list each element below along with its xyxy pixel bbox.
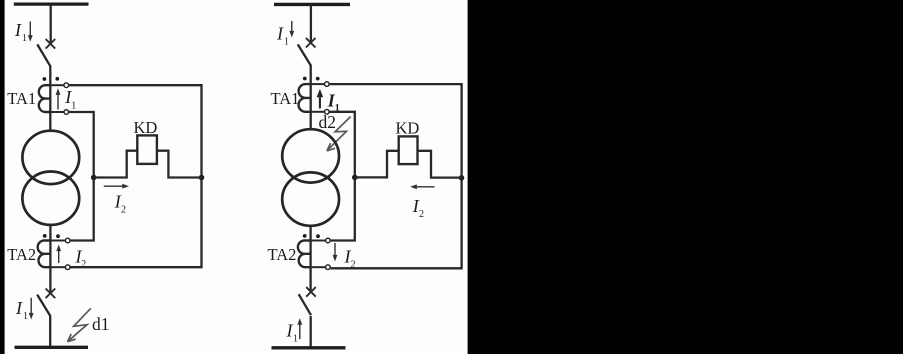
svg-text:d1: d1: [92, 314, 110, 334]
svg-text:2: 2: [121, 205, 126, 216]
label I1 top-left: [14, 20, 27, 44]
switch blade top-left: [37, 44, 50, 66]
arrow I1 secondary bold (up) right TA1: [317, 89, 324, 109]
bus top-left: [14, 2, 89, 5]
wire: relay branch right segment (right circuit): [418, 151, 462, 178]
TA1 terminal circle top (right): [325, 82, 330, 87]
current arrow I1 bottom-left (down): [29, 298, 34, 320]
current arrow I1 top-right (down): [289, 21, 294, 38]
wire: TA1 top terminal to right vertical (left circuit): [69, 85, 202, 267]
TA2 terminal stub wires (left): [50, 241, 65, 268]
svg-text:1: 1: [22, 33, 27, 44]
TA1 terminal circle top: [64, 83, 69, 88]
svg-text:1: 1: [23, 311, 28, 322]
wire: transformer to TA2 (right): [309, 226, 311, 291]
wire: blade to bus bottom-left: [49, 315, 51, 348]
breaker cross bottom-left: [46, 289, 56, 299]
wire: TA1 top terminal to right vertical (right circuit): [330, 84, 462, 268]
svg-text:KD: KD: [134, 118, 158, 137]
polarity dot TA2 primary (right): [303, 234, 307, 238]
TA1 terminal stub wires: [51, 85, 64, 112]
svg-text:1: 1: [293, 333, 298, 344]
wire: relay branch left segment (right circuit): [355, 151, 399, 178]
breaker cross top-left: [46, 39, 56, 49]
TA2 terminal circle top (left): [65, 238, 70, 243]
junction node left (inner): [91, 175, 97, 181]
wire: TA1 bottom terminal down to TA2 top terminal (left inner): [69, 112, 94, 241]
label I1 bold at TA1 (right): [327, 90, 340, 114]
transformer T1 (right) upper winding: [282, 129, 339, 182]
relay KD (left): [137, 135, 157, 164]
svg-text:2: 2: [419, 209, 424, 220]
relay KD (right): [399, 136, 418, 164]
bus top-right: [274, 3, 350, 6]
bus bottom-left: [15, 346, 89, 349]
breaker cross bottom-right: [306, 287, 316, 297]
label I1 top-right: [276, 24, 289, 48]
CT TA1 (right) coil: [299, 84, 311, 112]
label I2 at TA2 (right): [344, 247, 356, 271]
switch blade bottom-right: [299, 294, 311, 315]
wire: relay branch right segment: [157, 151, 202, 178]
polarity dot TA1 primary (right): [303, 77, 307, 81]
svg-text:1: 1: [71, 100, 76, 111]
polarity dot TA2 secondary (left): [56, 234, 60, 238]
svg-text:TA2: TA2: [268, 245, 297, 264]
svg-text:TA1: TA1: [7, 89, 36, 108]
TA1 terminal circle bottom: [64, 110, 69, 115]
wire: blade to bus bottom-right: [310, 316, 312, 348]
label I2 relay (right circuit): [412, 196, 424, 220]
black region right side: [468, 0, 903, 354]
polarity dot TA1 secondary: [55, 77, 59, 81]
fault d2 lightning arrow: [327, 117, 351, 151]
label I2 at TA2 (left): [75, 246, 87, 270]
TA1 terminal circle bottom (right): [325, 110, 330, 115]
polarity dot TA2 primary (left): [43, 234, 47, 238]
svg-text:KD: KD: [396, 119, 420, 138]
TA2 terminal stub wires (right): [311, 241, 326, 268]
label I1 bottom-right: [286, 321, 299, 345]
TA1 terminal stub wires (right): [311, 84, 324, 112]
current arrow I1 top-left (down): [28, 22, 33, 42]
polarity dot TA1 primary: [43, 77, 47, 81]
arrow I2 relay current (left-pointing, right circuit): [410, 184, 434, 189]
svg-text:I: I: [14, 20, 22, 40]
CT TA2 (left) coil: [38, 240, 51, 267]
transformer T1 (right) lower winding: [282, 172, 339, 225]
TA2 terminal circle bottom (right): [326, 265, 331, 270]
label I1 bottom-left: [15, 298, 28, 322]
CT TA1 (left) coil: [39, 85, 51, 112]
svg-text:I: I: [276, 24, 284, 44]
current arrow I1 bottom-right (up): [297, 318, 302, 339]
arrow I2 relay current (right-pointing, left circuit): [104, 184, 129, 189]
polarity dot TA2 secondary (right): [316, 234, 320, 238]
svg-text:TA2: TA2: [7, 245, 36, 264]
arrow I1 secondary (up) left TA1: [56, 88, 61, 109]
wire: bus to breaker (left top): [50, 4, 52, 42]
junction node right (right circuit): [459, 175, 465, 181]
label I2 relay (left circuit): [114, 192, 126, 216]
junction node left (right circuit): [352, 175, 358, 181]
arrow I2 secondary (up) left TA2: [56, 245, 61, 264]
transformer T1 (left) lower winding: [22, 172, 79, 225]
wire: blade to transformer (left): [49, 66, 51, 132]
polarity dot TA1 secondary (right): [316, 77, 320, 81]
wire: transformer to TA2 (left): [49, 225, 51, 293]
breaker cross top-right: [306, 38, 316, 48]
TA2 terminal circle bottom (left): [65, 265, 70, 270]
wire: TA1 bottom terminal down to TA2 top terminal (right inner): [330, 112, 355, 241]
black border strip left edge: [0, 0, 5, 354]
svg-text:d2: d2: [319, 112, 337, 132]
switch blade top-right: [298, 44, 311, 65]
svg-text:I: I: [15, 298, 23, 318]
junction node right (left circuit): [199, 175, 205, 181]
wire: bus to breaker (right top): [310, 4, 312, 41]
TA2 terminal circle top (right): [326, 238, 331, 243]
CT TA2 (right) coil: [298, 240, 311, 267]
transformer T1 (left) upper winding: [22, 131, 79, 184]
arrow I2 secondary (down) right TA2: [333, 243, 338, 262]
fault d1 lightning arrow: [68, 308, 91, 341]
bus bottom-right: [272, 346, 346, 349]
svg-text:TA1: TA1: [271, 89, 300, 108]
wire: relay branch left segment: [94, 151, 138, 178]
label I1 at TA1 (left): [64, 87, 76, 111]
wire: blade to transformer (right): [310, 65, 312, 130]
svg-text:1: 1: [284, 37, 289, 48]
switch blade bottom-left: [37, 295, 50, 316]
